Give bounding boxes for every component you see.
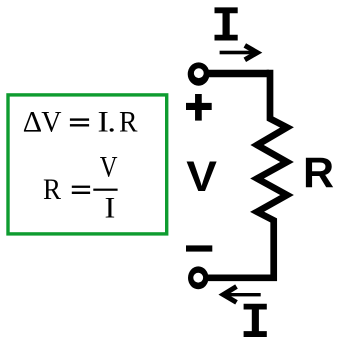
svg-text:R: R [119, 106, 138, 139]
svg-text:R: R [43, 174, 61, 206]
svg-text:V: V [186, 153, 217, 200]
svg-text:V: V [41, 106, 61, 139]
svg-text:I: I [105, 191, 116, 224]
svg-text:R: R [303, 149, 334, 197]
svg-text:Δ: Δ [23, 106, 42, 139]
svg-text:.: . [107, 106, 116, 139]
svg-text:V: V [100, 150, 118, 183]
